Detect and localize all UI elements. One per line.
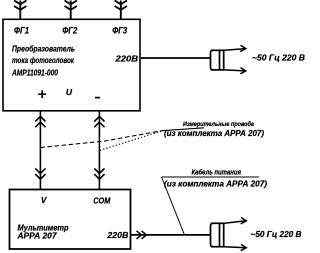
multimeter box APPA 207 [10,190,131,250]
svg-text:(из комплекта АРРА 207): (из комплекта АРРА 207) [164,129,264,138]
svg-text:АРРА 207: АРРА 207 [16,232,57,241]
converter box A1 [3,19,140,111]
light input arrow ФГ3 [115,1,127,20]
mains plug XP2 prong arrows [225,218,247,251]
svg-text:ФГ1: ФГ1 [14,25,29,35]
terminal − [95,97,100,99]
terminal + [38,90,46,98]
svg-text:220В: 220В [114,54,138,64]
callout leader (measuring wires) [40,128,204,151]
converter name text [11,43,75,77]
svg-text:тока фотоголовок: тока фотоголовок [12,56,75,65]
svg-text:АМР11091-000: АМР11091-000 [11,69,58,78]
wire converter to mains plug [140,57,210,59]
power cable wire [131,231,211,239]
svg-text:COM: COM [93,197,110,206]
mains plug XP1 prong arrows [225,45,246,74]
svg-text:(из комплекта АРРА 207): (из комплекта АРРА 207) [164,179,267,188]
svg-text:ФГ2: ФГ2 [62,25,77,35]
svg-text:ФГ3: ФГ3 [112,25,127,35]
label Мультиметр АРРА 207 [16,224,68,241]
svg-text:Преобразователь: Преобразователь [12,43,75,53]
svg-text:Кабель питания: Кабель питания [192,168,242,176]
svg-text:~50 Гц 220 В: ~50 Гц 220 В [252,53,305,62]
light input arrow ФГ1 [14,1,26,20]
mains plug XP1 body [211,50,225,71]
svg-text:~50 Гц 220 В: ~50 Гц 220 В [251,230,302,239]
callout leader (power cable) [162,177,260,235]
svg-text:Измерительные провода: Измерительные провода [183,120,254,128]
measuring wire V (left) [35,111,45,189]
svg-text:220В: 220В [106,230,128,240]
svg-text:U: U [66,87,73,97]
measuring wire COM (right) [94,111,104,189]
mains plug XP2 body [211,223,225,247]
light input arrow ФГ2 [65,1,77,20]
